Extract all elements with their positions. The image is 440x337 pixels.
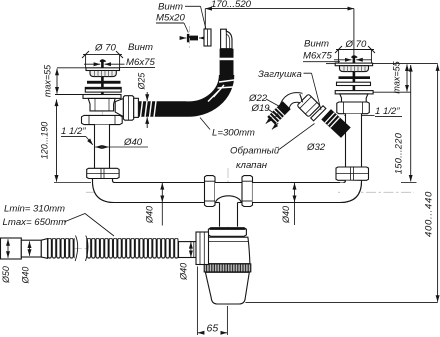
right sink line: [326, 63, 335, 65]
label 1 1/2" (right): [344, 114, 374, 116]
svg-text:Ø 70: Ø 70: [94, 43, 116, 54]
svg-text:max=55: max=55: [43, 64, 53, 97]
hose end cuff Ø50: [1, 238, 22, 259]
overflow hose top connector: [220, 49, 234, 75]
check valve body: [297, 94, 320, 117]
check valve washer: [311, 106, 326, 121]
screw centerline: [189, 26, 191, 48]
svg-text:клапан: клапан: [236, 160, 268, 171]
hose taper: [41, 239, 47, 259]
horizontal pipe right part: [253, 183, 339, 203]
svg-text:150...220: 150...220: [394, 132, 404, 174]
svg-text:Винт: Винт: [304, 39, 329, 50]
svg-text:Заглушка: Заглушка: [258, 69, 302, 80]
trap outlet tube: [179, 242, 197, 258]
hose step Ø40: [21, 240, 41, 257]
svg-text:Винт: Винт: [158, 2, 183, 13]
svg-text:1 1/2”: 1 1/2”: [375, 106, 400, 117]
right drain gasket plate A: [339, 76, 371, 79]
dimension Ø40 (horizontal pipe right): [294, 183, 296, 202]
tee branch tube: [220, 203, 238, 227]
left drain screw M6x75 leader: [84, 63, 125, 65]
check valve barb Ø22/Ø19: [267, 101, 290, 124]
dimension 65: [197, 267, 227, 336]
svg-text:Ø40: Ø40: [145, 206, 155, 224]
check valve elbow: [284, 97, 301, 108]
left drain screw: [101, 60, 104, 110]
check valve nozzle Ø32: [321, 109, 350, 138]
overflow hose nut: [123, 96, 133, 121]
left drain dish: [90, 71, 116, 77]
svg-text:L=300mm: L=300mm: [212, 128, 255, 139]
dimension Ø40 (outlet): [190, 242, 192, 257]
centerlines: [2, 55, 414, 308]
right drain nut: [337, 102, 370, 114]
left drain gasket plate B: [85, 87, 121, 92]
svg-text:Ø40: Ø40: [178, 263, 188, 281]
max=55 extension (right): [373, 91, 411, 93]
svg-text:1 1/2”: 1 1/2”: [61, 126, 86, 137]
svg-text:Ø50: Ø50: [1, 266, 11, 284]
left drain gasket plate A: [87, 81, 121, 84]
left drain overflow outlet: [115, 99, 123, 117]
barb exit arrows: [266, 118, 272, 124]
horizontal pipe: [115, 183, 205, 203]
right drain pipe: [346, 114, 362, 167]
tee body: [215, 183, 242, 203]
svg-text:Обратный: Обратный: [230, 145, 280, 156]
right drain dish: [340, 66, 369, 72]
right drain gasket plate B: [337, 82, 371, 85]
overflow sleeve part: [204, 29, 211, 46]
left drain body: [88, 98, 115, 111]
overflow head part: [221, 29, 232, 49]
left drain tailpipe: [95, 125, 110, 169]
svg-text:170...520: 170...520: [211, 0, 252, 10]
dimension 170...520: [205, 9, 354, 56]
svg-text:max=55: max=55: [392, 60, 402, 93]
floor line: [245, 302, 437, 304]
corrugated hose: [48, 238, 75, 259]
svg-text:Ø40: Ø40: [123, 137, 143, 148]
svg-text:400...440: 400...440: [424, 191, 435, 237]
right drain body: [340, 94, 368, 102]
svg-text:М6х75: М6х75: [303, 51, 332, 62]
trap ring band: [204, 264, 251, 272]
right union joint: [336, 167, 369, 180]
svg-text:Винт: Винт: [128, 42, 153, 53]
right drain screw: [353, 56, 356, 105]
tee right nut: [242, 176, 253, 207]
left drain union nut 1 1/2: [82, 115, 123, 124]
dimension Ø40 (horizontal pipe left): [161, 183, 163, 202]
svg-text:М6х75: М6х75: [126, 57, 155, 68]
svg-text:Ø40: Ø40: [281, 206, 291, 224]
left drain gasket plate C: [83, 95, 121, 99]
screw M5x20: [181, 34, 204, 42]
trap outlet nut: [196, 232, 209, 265]
dimension Ø40 (left tailpipe): [95, 146, 148, 148]
svg-text:Ø32: Ø32: [306, 142, 326, 153]
trap bottle lower cup: [205, 272, 249, 304]
svg-text:Ø40: Ø40: [21, 267, 31, 285]
right elbow: [339, 180, 362, 202]
trap nut: [208, 228, 246, 237]
svg-text:Ø19: Ø19: [251, 103, 271, 114]
overflow hose: [139, 75, 227, 109]
svg-text:65: 65: [207, 322, 219, 334]
svg-text:Ø25: Ø25: [137, 73, 147, 91]
left drain flange plate: [86, 68, 120, 71]
svg-text:120...190: 120...190: [40, 122, 50, 160]
right drain flange plate: [335, 63, 372, 66]
svg-text:Ø 70: Ø 70: [345, 39, 367, 50]
trap bottle upper cup: [204, 237, 250, 264]
right drain gasket plate C: [335, 91, 373, 94]
svg-text:Lmax= 650mm: Lmax= 650mm: [3, 217, 67, 228]
svg-text:Lmin= 310mm: Lmin= 310mm: [4, 204, 65, 215]
left union joint: [87, 168, 119, 178]
right drain screw leader: [334, 59, 372, 61]
tee left nut: [205, 176, 216, 207]
svg-text:М5х20: М5х20: [156, 13, 185, 24]
left elbow: [93, 179, 116, 203]
hose break marks: [75, 236, 77, 262]
left sink line: [57, 67, 86, 69]
